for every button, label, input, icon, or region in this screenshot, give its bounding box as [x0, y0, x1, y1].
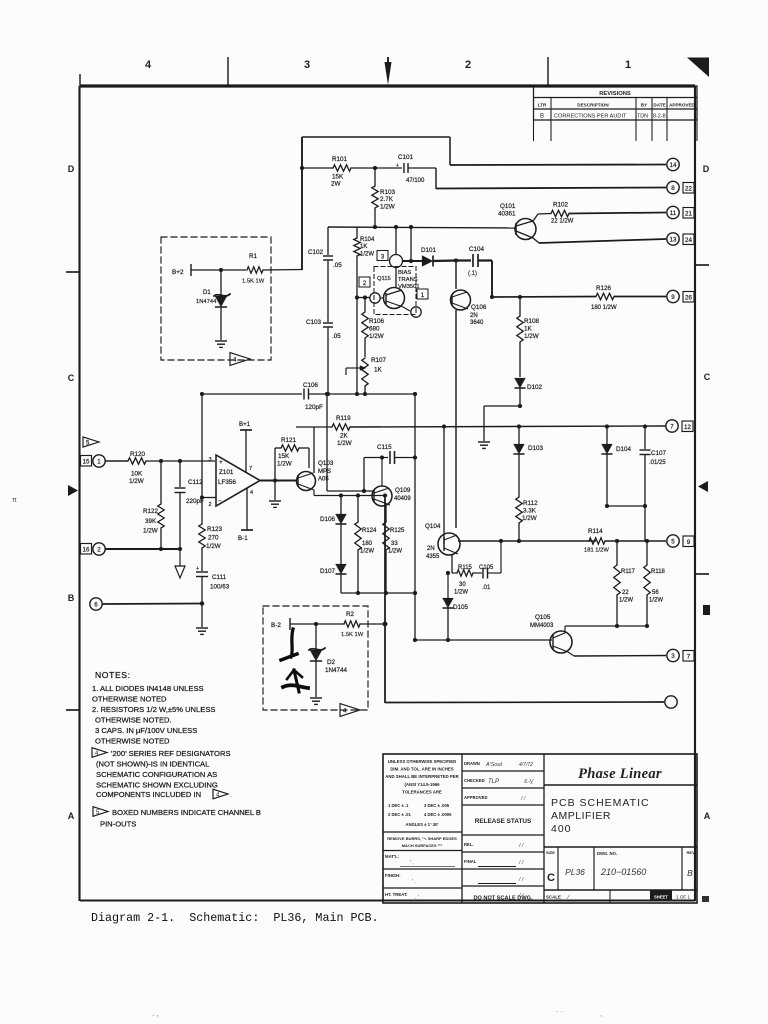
svg-text:FINAL: FINAL: [464, 859, 477, 864]
svg-text:D101: D101: [421, 247, 437, 254]
svg-text:1K: 1K: [360, 244, 367, 250]
wire bias rail x=415: [414, 394, 416, 593]
wire bias [2] link: [357, 297, 370, 299]
svg-text:R102: R102: [553, 202, 569, 209]
svg-text:R1: R1: [249, 253, 258, 260]
svg-text:PIN-OUTS: PIN-OUTS: [100, 820, 136, 829]
svg-text:.01: .01: [482, 585, 491, 591]
svg-text:(ANSI Y14.5-1966: (ANSI Y14.5-1966: [404, 782, 440, 787]
zone ticks and numbers top: [145, 57, 631, 86]
svg-text:16: 16: [83, 547, 90, 554]
diode D103: [518, 427, 520, 445]
svg-text:R114: R114: [588, 528, 603, 535]
svg-text:R112: R112: [523, 500, 538, 507]
diode D101: [410, 227, 412, 261]
svg-text:22: 22: [622, 590, 629, 596]
svg-text:C112: C112: [188, 479, 203, 486]
svg-text:APPROVED: APPROVED: [669, 102, 695, 107]
svg-text:1: 1: [97, 458, 101, 465]
svg-text:B: B: [540, 114, 544, 120]
svg-text:3: 3: [208, 457, 211, 463]
svg-text:A: A: [68, 811, 75, 821]
svg-text:24: 24: [685, 237, 692, 244]
svg-text:C106: C106: [303, 382, 319, 389]
svg-text:21: 21: [685, 211, 692, 218]
svg-text:7: 7: [249, 466, 252, 472]
svg-text:SIZE: SIZE: [546, 850, 555, 855]
svg-text:1/2W: 1/2W: [649, 598, 663, 604]
svg-text:39K: 39K: [145, 518, 157, 525]
svg-text:/ /: / /: [518, 860, 524, 866]
pin 1 terminal: [81, 456, 92, 467]
svg-text:.01/25: .01/25: [649, 460, 666, 466]
svg-text:D: D: [68, 164, 75, 174]
svg-text:1/2W: 1/2W: [206, 543, 221, 550]
svg-text:. ': . ': [415, 895, 419, 901]
svg-text:Q105: Q105: [535, 614, 551, 621]
svg-text:LF356: LF356: [218, 479, 236, 486]
resistor R103: [374, 168, 376, 186]
svg-text:120pF: 120pF: [305, 404, 323, 411]
capacitor C111: [196, 571, 208, 573]
svg-text:2N: 2N: [470, 313, 478, 319]
svg-text:1.5K 1W: 1.5K 1W: [242, 279, 265, 285]
svg-text:181 1/2W: 181 1/2W: [584, 548, 609, 554]
svg-text:9: 9: [671, 294, 675, 301]
wire pin5 line: [458, 540, 596, 542]
svg-text:B+1: B+1: [239, 421, 251, 428]
svg-text:DATE: DATE: [653, 102, 665, 107]
resistor R101: [302, 167, 333, 169]
wire bottom rail: [384, 496, 386, 704]
wire feedback column: [201, 394, 203, 498]
svg-text:1/2W: 1/2W: [524, 333, 539, 340]
svg-text:2.7K: 2.7K: [380, 196, 394, 203]
svg-text:C107: C107: [651, 450, 667, 457]
svg-text:D104: D104: [616, 446, 632, 453]
svg-text:2K: 2K: [340, 433, 349, 440]
svg-text:DWG. NO.: DWG. NO.: [597, 851, 617, 856]
svg-text:DO NOT SCALE DWG.: DO NOT SCALE DWG.: [473, 896, 532, 902]
svg-text:REV.: REV.: [687, 850, 696, 855]
svg-text:210−01560: 210−01560: [600, 867, 646, 877]
revision table: [534, 86, 698, 141]
wire B+1 feed / pin7 line: [296, 426, 332, 428]
svg-text:1.5K 1W: 1.5K 1W: [341, 632, 364, 638]
handwritten correction strokes: [291, 629, 293, 657]
svg-text:C: C: [68, 373, 75, 383]
capacitor C101: [403, 163, 405, 173]
svg-text:+: +: [396, 163, 399, 169]
wire base column x=444: [443, 427, 445, 545]
svg-text:C: C: [547, 872, 555, 884]
svg-text:C105: C105: [479, 565, 494, 571]
svg-text:SCHEMATIC SHOWN EXCLUDING: SCHEMATIC SHOWN EXCLUDING: [96, 781, 218, 790]
ground under C111: [196, 627, 208, 629]
svg-text:ANGLES ± 1° 30': ANGLES ± 1° 30': [406, 822, 439, 827]
wire bias bus: [328, 227, 515, 228]
wire Q105 base row: [415, 639, 552, 641]
svg-text:Phase Linear: Phase Linear: [578, 766, 662, 782]
svg-text:COMPONENTS INCLUDED IN: COMPONENTS INCLUDED IN: [96, 790, 201, 799]
sheet border frame: [80, 86, 696, 901]
svg-text:R101: R101: [332, 156, 348, 163]
svg-text:10K: 10K: [131, 471, 143, 478]
resistor R102: [533, 214, 538, 221]
svg-text:2W: 2W: [331, 181, 341, 188]
svg-text:3: 3: [304, 59, 310, 71]
svg-text:12: 12: [684, 424, 691, 431]
svg-text:R104: R104: [360, 237, 375, 243]
capacitor C107: [644, 427, 646, 450]
svg-text:4355: 4355: [426, 554, 440, 560]
svg-text:+: +: [219, 459, 223, 466]
svg-text:Q104: Q104: [425, 523, 441, 530]
svg-text:C102: C102: [308, 249, 324, 256]
transistor Q109: [372, 486, 392, 506]
svg-text:R115: R115: [458, 565, 473, 571]
svg-text:3 DEC ± .005: 3 DEC ± .005: [424, 803, 450, 808]
transistor Q103: [297, 472, 316, 491]
svg-text:R119: R119: [336, 415, 351, 422]
diode D104: [606, 427, 608, 445]
svg-text:R103: R103: [380, 189, 396, 196]
svg-text:1K: 1K: [374, 367, 383, 374]
svg-text:4 DEC ± .0005: 4 DEC ± .0005: [424, 812, 452, 817]
wire top bus: [302, 136, 450, 138]
svg-text:TLP: TLP: [488, 779, 499, 785]
svg-text:SHEET: SHEET: [654, 894, 668, 899]
flag 4 in B+2 box: [230, 353, 250, 366]
svg-text:' ,: ' ,: [410, 860, 414, 866]
node bottom terminal: [665, 696, 677, 708]
svg-text:R125: R125: [390, 528, 405, 534]
svg-text:D2: D2: [327, 659, 336, 666]
diode D106: [340, 496, 342, 515]
capacitor C106 feedback: [202, 393, 302, 395]
node pin 5 terminal, channel-B box 9: [667, 535, 679, 547]
svg-text:CHECKED: CHECKED: [464, 778, 485, 783]
svg-text:4: 4: [145, 59, 152, 71]
svg-text:9: 9: [687, 539, 691, 546]
svg-text:Z101: Z101: [219, 469, 234, 476]
svg-text:3.3K: 3.3K: [523, 508, 537, 515]
svg-text:14: 14: [670, 162, 677, 169]
svg-text:MAT'L:: MAT'L:: [385, 854, 400, 859]
svg-text:DESCRIPTION: DESCRIPTION: [577, 102, 609, 107]
transistor Q105: [550, 631, 572, 653]
svg-text:R121: R121: [281, 437, 297, 444]
capacitor C115: [363, 458, 365, 492]
svg-text:R120: R120: [130, 451, 146, 458]
svg-text:1/2W: 1/2W: [143, 528, 158, 535]
node pin 3 terminal, channel-B box 7: [667, 649, 679, 661]
wire minus input: [202, 497, 216, 499]
svg-text:FINISH:: FINISH:: [385, 873, 401, 878]
svg-text:3640: 3640: [470, 320, 484, 326]
svg-text:100/63: 100/63: [210, 584, 230, 591]
flag channel-B 5: [83, 437, 99, 447]
resistor R107 trimmer: [362, 358, 368, 386]
corner cut triangle top right: [687, 58, 709, 78]
svg-text:R107: R107: [371, 357, 387, 364]
svg-text:REVISIONS: REVISIONS: [599, 91, 631, 97]
svg-text:Q101: Q101: [500, 203, 516, 210]
svg-text:BY: BY: [641, 102, 647, 107]
svg-text:47/100: 47/100: [406, 178, 425, 184]
resistor R117: [616, 541, 618, 565]
svg-text:8: 8: [671, 185, 675, 192]
svg-text:1/2W: 1/2W: [277, 461, 292, 468]
svg-text:B+2: B+2: [172, 269, 184, 276]
resistor R1: [247, 267, 263, 273]
svg-text:B-2: B-2: [271, 622, 281, 629]
svg-text:OTHERWISE NOTED: OTHERWISE NOTED: [95, 737, 170, 746]
svg-text:56: 56: [652, 590, 659, 596]
ground in B-2 box: [310, 697, 322, 699]
svg-text:R126: R126: [596, 285, 612, 292]
svg-text:C: C: [704, 372, 711, 382]
svg-text:'200' SERIES REF DESIGNATORS: '200' SERIES REF DESIGNATORS: [111, 749, 231, 758]
svg-text:SCHEMATIC CONFIGURATION AS: SCHEMATIC CONFIGURATION AS: [96, 770, 217, 779]
wire pin8 line: [435, 168, 437, 189]
svg-text:D107: D107: [320, 568, 336, 575]
svg-text:R123: R123: [207, 526, 223, 533]
resistor R104: [356, 227, 358, 238]
svg-text:C101: C101: [398, 154, 414, 161]
pin 6 terminal: [90, 598, 102, 610]
svg-text:1N4744: 1N4744: [196, 299, 217, 305]
svg-text:30: 30: [459, 582, 466, 588]
svg-text:D102: D102: [527, 384, 543, 391]
wire Q105 emitter to pin3: [568, 652, 574, 656]
svg-text:DRAWN: DRAWN: [464, 761, 480, 766]
svg-text:(.1): (.1): [468, 271, 477, 277]
svg-text:R2: R2: [346, 611, 355, 618]
svg-text:C115: C115: [377, 444, 392, 451]
wire D104-C107 node: [607, 505, 645, 507]
svg-text:.05: .05: [332, 333, 341, 340]
wire diode bottom bus: [341, 592, 415, 594]
svg-text:40409: 40409: [394, 496, 411, 502]
node pin 14 terminal: [667, 158, 679, 170]
resistor R106: [364, 297, 366, 312]
svg-text:.05: .05: [333, 262, 342, 269]
svg-text:15K: 15K: [332, 174, 344, 181]
svg-text:PCB SCHEMATIC: PCB SCHEMATIC: [551, 797, 650, 809]
svg-text:/ /: / /: [520, 796, 526, 802]
svg-text:BOXED NUMBERS INDICATE CHANNEL: BOXED NUMBERS INDICATE CHANNEL B: [112, 808, 261, 817]
svg-text:' .: ' .: [412, 879, 416, 885]
svg-text:26: 26: [685, 295, 692, 302]
svg-text:UNLESS OTHERWISE SPECIFIED: UNLESS OTHERWISE SPECIFIED: [388, 759, 456, 764]
resistor R122: [160, 461, 162, 504]
svg-text:Q115: Q115: [377, 276, 391, 282]
svg-text:BIAS: BIAS: [398, 270, 411, 276]
diode D105: [447, 573, 449, 598]
svg-text:Q103: Q103: [318, 460, 334, 467]
svg-text:Q109: Q109: [395, 487, 411, 494]
svg-text:. .: . .: [556, 1005, 563, 1014]
capacitor C102: [327, 227, 329, 255]
svg-text:CORRECTIONS PER AUDIT: CORRECTIONS PER AUDIT: [554, 114, 627, 120]
svg-text:1/2W: 1/2W: [522, 515, 537, 522]
svg-text:REMOVE BURRS, ¹³₂ SHARP EDGES: REMOVE BURRS, ¹³₂ SHARP EDGES: [387, 836, 457, 841]
transistor Q106: [455, 261, 457, 290]
flag 4 in B-2 box: [340, 704, 360, 717]
svg-text:B-1: B-1: [238, 535, 248, 542]
wire Q109 base: [327, 490, 374, 492]
svg-text:PL36: PL36: [565, 867, 585, 877]
pin 2 terminal: [81, 544, 92, 555]
svg-text:MACH SURFACES ¹²⁵: MACH SURFACES ¹²⁵: [402, 843, 443, 848]
svg-text:1: 1: [625, 59, 631, 71]
svg-text:C104: C104: [469, 246, 485, 253]
svg-text:33: 33: [391, 541, 398, 547]
title block: [383, 754, 709, 903]
svg-text:4/7/72: 4/7/72: [519, 762, 533, 768]
resistor R108: [519, 297, 521, 316]
svg-text:A'Sout: A'Sout: [485, 762, 503, 768]
resistor R118: [646, 541, 648, 565]
dashed box channel B+2 regulator: [161, 237, 271, 360]
ground: [478, 441, 490, 443]
svg-text:40361: 40361: [498, 211, 516, 218]
svg-text:2N: 2N: [427, 546, 435, 552]
svg-text:R124: R124: [362, 528, 377, 534]
wire B+2 rail vertical: [301, 137, 303, 270]
svg-text:R118: R118: [651, 569, 666, 575]
svg-text:2: 2: [465, 59, 471, 71]
svg-text:2: 2: [208, 502, 211, 508]
svg-text:MPS: MPS: [318, 469, 331, 475]
svg-text:15K: 15K: [278, 453, 290, 460]
svg-text:11: 11: [670, 210, 677, 217]
capacitor C112: [179, 461, 181, 487]
svg-text:270: 270: [208, 535, 219, 542]
svg-text:AND SHALL BE INTERPRETED PER: AND SHALL BE INTERPRETED PER: [385, 774, 459, 779]
node pin 8 terminal, channel-B box 22: [667, 181, 679, 193]
svg-text:TDN: TDN: [637, 114, 648, 120]
svg-text:B: B: [687, 868, 693, 878]
svg-text:OTHERWISE NOTED: OTHERWISE NOTED: [92, 695, 167, 704]
B-1 supply: [246, 488, 248, 530]
diode D2 zener: [315, 624, 317, 650]
svg-text:1/2W: 1/2W: [369, 333, 384, 340]
svg-text:/L-V̲: /L-V̲: [523, 779, 534, 785]
wire Q103 collector: [313, 427, 315, 473]
node pin 7 terminal, channel-B box 12: [666, 420, 678, 432]
open arrow below pin2 wire: [179, 549, 181, 566]
node pin 11 terminal, channel-B box 21: [667, 206, 679, 218]
svg-text:1 OF 1: 1 OF 1: [676, 895, 690, 900]
svg-text:/ /: / /: [518, 843, 524, 849]
svg-text:1/2W: 1/2W: [380, 204, 395, 211]
svg-text:B: B: [68, 593, 75, 603]
svg-text:3: 3: [671, 653, 675, 660]
diode D107: [336, 564, 347, 574]
svg-text:LTR: LTR: [538, 102, 547, 107]
diode D102: [515, 378, 526, 388]
zone letters right: [696, 164, 711, 821]
svg-text:+: +: [196, 566, 199, 572]
svg-text:1 DEC ± .1: 1 DEC ± .1: [388, 803, 409, 808]
node pin 13 terminal, channel-B box 24: [667, 233, 679, 245]
wire pin14 line: [450, 164, 666, 167]
svg-text:1/2W: 1/2W: [360, 252, 374, 258]
svg-text:2. RESISTORS 1/2 W,±5% UNLESS: 2. RESISTORS 1/2 W,±5% UNLESS: [92, 705, 215, 714]
svg-text:AMPLIFIER: AMPLIFIER: [551, 810, 611, 822]
svg-text:1/2W: 1/2W: [129, 478, 144, 485]
capacitor C103: [323, 322, 333, 324]
svg-text:−: −: [218, 498, 222, 505]
transistor Q104: [438, 533, 460, 555]
svg-text:13: 13: [670, 236, 677, 243]
svg-text:. ,: . ,: [152, 1009, 159, 1018]
svg-text:DIM. AND TOL. ARE IN INCHES: DIM. AND TOL. ARE IN INCHES: [390, 767, 453, 772]
svg-text:SCALE: SCALE: [546, 895, 561, 900]
resistor R115 / capacitor C105 emitter row: [451, 554, 453, 573]
svg-text:D105: D105: [453, 604, 469, 611]
svg-text:22: 22: [685, 186, 692, 193]
resistor R121 feedback: [275, 447, 281, 449]
svg-text:D1: D1: [203, 290, 211, 296]
diode D1 zener: [220, 270, 222, 296]
svg-text:,: ,: [600, 1009, 602, 1018]
svg-text:TRANS: TRANS: [398, 277, 418, 283]
svg-text:2 DEC ± .01: 2 DEC ± .01: [388, 812, 411, 817]
zone letters left: [66, 164, 79, 821]
resistor R120: [105, 460, 128, 462]
svg-text:HT. TREAT:: HT. TREAT:: [385, 892, 408, 897]
svg-text:7: 7: [687, 654, 691, 661]
svg-text:OTHERWISE NOTED.: OTHERWISE NOTED.: [95, 716, 172, 725]
svg-text:15: 15: [83, 459, 90, 466]
ground in B+2 box: [215, 340, 227, 342]
resistor R126: [596, 293, 614, 299]
node pin 9 terminal, channel-B box 26: [667, 290, 679, 302]
svg-text:1/2W: 1/2W: [337, 440, 352, 447]
svg-text:D103: D103: [528, 445, 544, 452]
svg-text:3 CAPS. IN μF/100V UNLESS: 3 CAPS. IN μF/100V UNLESS: [95, 726, 197, 735]
svg-text:/ /: / /: [518, 877, 524, 883]
dashed box channel B-2 regulator: [263, 606, 368, 710]
svg-text:4: 4: [250, 490, 253, 496]
wire pin13 line: [533, 238, 539, 243]
svg-text:22 1/2W: 22 1/2W: [551, 219, 574, 225]
svg-text:π: π: [12, 497, 17, 504]
svg-text:1/2W: 1/2W: [454, 590, 468, 596]
svg-text:A: A: [704, 811, 711, 821]
notes text: [92, 670, 261, 829]
resistor R124: [357, 496, 359, 523]
svg-text:RELEASE STATUS: RELEASE STATUS: [475, 818, 532, 825]
svg-text:6: 6: [94, 601, 98, 608]
svg-text:1K: 1K: [524, 326, 533, 333]
svg-text:VM3501: VM3501: [398, 284, 420, 290]
svg-text:R108: R108: [524, 318, 540, 325]
svg-text:REL.: REL.: [464, 842, 474, 847]
svg-text:(NOT SHOWN)-IS IN IDENTICAL: (NOT SHOWN)-IS IN IDENTICAL: [96, 760, 209, 769]
B+1 supply: [245, 430, 247, 472]
svg-text:R106: R106: [369, 318, 385, 325]
svg-text:D: D: [703, 164, 710, 174]
resistor R125: [385, 506, 387, 522]
svg-text:1/2W: 1/2W: [619, 598, 633, 604]
svg-text:C111: C111: [212, 574, 227, 581]
svg-text:7: 7: [670, 423, 674, 430]
wire C104 to pin9 row: [491, 261, 493, 298]
